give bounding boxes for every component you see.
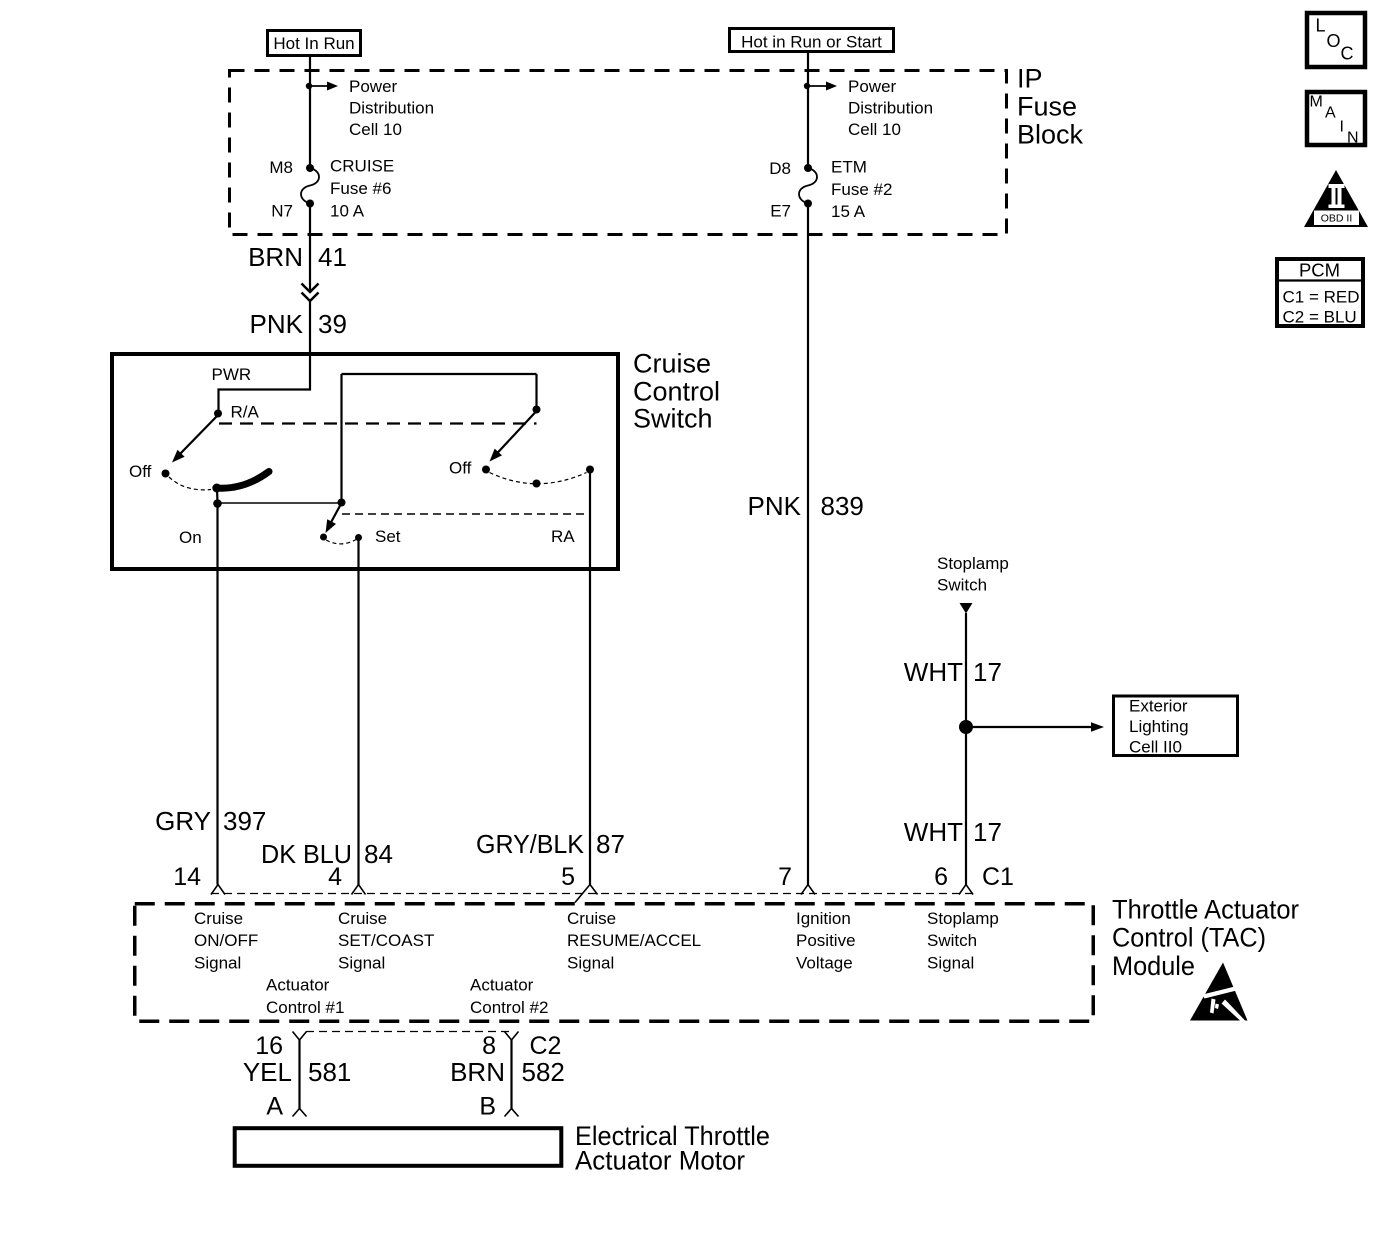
svg-text:Distribution: Distribution <box>349 99 434 118</box>
svg-text:Positive: Positive <box>796 931 856 950</box>
svg-text:Stoplamp: Stoplamp <box>927 909 999 928</box>
svg-text:87: 87 <box>596 829 625 859</box>
svg-text:ETM: ETM <box>831 158 867 177</box>
svg-text:Power: Power <box>349 77 398 96</box>
svg-text:Throttle Actuator: Throttle Actuator <box>1112 895 1299 925</box>
svg-text:D8: D8 <box>769 159 791 178</box>
svg-text:On: On <box>179 528 202 547</box>
svg-text:PCM: PCM <box>1299 260 1340 281</box>
svg-text:Voltage: Voltage <box>796 954 853 973</box>
svg-text:Signal: Signal <box>567 954 614 973</box>
svg-text:Hot in Run or Start: Hot in Run or Start <box>741 33 882 52</box>
svg-text:17: 17 <box>973 817 1002 847</box>
svg-text:CRUISE: CRUISE <box>330 157 394 176</box>
svg-text:WHT: WHT <box>904 657 963 687</box>
svg-text:Lighting: Lighting <box>1129 717 1189 736</box>
svg-text:Off: Off <box>129 462 152 481</box>
svg-text:PNK: PNK <box>250 309 304 339</box>
svg-text:17: 17 <box>973 657 1002 687</box>
svg-text:B: B <box>479 1093 496 1121</box>
svg-text:Cell 10: Cell 10 <box>848 120 901 139</box>
svg-text:SET/COAST: SET/COAST <box>338 931 434 950</box>
svg-text:BRN: BRN <box>248 242 303 272</box>
svg-text:Distribution: Distribution <box>848 99 933 118</box>
svg-text:I: I <box>1340 119 1344 136</box>
svg-text:PWR: PWR <box>212 365 252 384</box>
svg-text:7: 7 <box>778 863 792 891</box>
svg-text:GRY/BLK: GRY/BLK <box>476 829 585 859</box>
svg-text:397: 397 <box>223 806 266 836</box>
svg-text:Control: Control <box>633 377 720 407</box>
svg-text:RA: RA <box>551 527 575 546</box>
svg-text:14: 14 <box>173 863 201 891</box>
svg-text:YEL: YEL <box>243 1057 292 1087</box>
svg-text:Cell II0: Cell II0 <box>1129 738 1182 757</box>
svg-text:Signal: Signal <box>927 954 974 973</box>
svg-text:Power: Power <box>848 77 897 96</box>
svg-text:Actuator: Actuator <box>470 976 534 995</box>
svg-text:ON/OFF: ON/OFF <box>194 931 258 950</box>
svg-text:RESUME/ACCEL: RESUME/ACCEL <box>567 931 701 950</box>
svg-text:Actuator Motor: Actuator Motor <box>575 1146 745 1176</box>
svg-text:A: A <box>1325 105 1336 122</box>
svg-text:Switch: Switch <box>633 404 713 434</box>
svg-text:IP: IP <box>1017 64 1043 94</box>
svg-text:Module: Module <box>1112 951 1195 981</box>
svg-text:Actuator: Actuator <box>266 976 330 995</box>
svg-text:Fuse #2: Fuse #2 <box>831 180 892 199</box>
svg-text:Control (TAC): Control (TAC) <box>1112 923 1266 953</box>
svg-text:L: L <box>1316 16 1326 36</box>
svg-text:6: 6 <box>934 863 948 891</box>
svg-text:WHT: WHT <box>904 817 963 847</box>
svg-text:Signal: Signal <box>338 954 385 973</box>
svg-text:839: 839 <box>821 491 864 521</box>
svg-text:OBD II: OBD II <box>1321 213 1353 225</box>
svg-text:Exterior: Exterior <box>1129 697 1188 716</box>
svg-text:5: 5 <box>561 863 575 891</box>
svg-text:Switch: Switch <box>937 576 987 595</box>
svg-text:R/A: R/A <box>231 403 260 422</box>
svg-text:Ignition: Ignition <box>796 909 851 928</box>
svg-text:Block: Block <box>1017 120 1084 150</box>
svg-text:15 A: 15 A <box>831 202 866 221</box>
svg-text:582: 582 <box>522 1057 565 1087</box>
svg-text:4: 4 <box>328 863 342 891</box>
svg-text:N7: N7 <box>271 202 293 221</box>
svg-text:Off: Off <box>449 459 472 478</box>
svg-text:Hot In Run: Hot In Run <box>273 34 354 53</box>
svg-text:Cruise: Cruise <box>633 349 711 379</box>
svg-text:GRY: GRY <box>155 806 211 836</box>
svg-text:41: 41 <box>318 242 347 272</box>
svg-text:C2: C2 <box>530 1032 562 1060</box>
svg-text:C1 = RED: C1 = RED <box>1283 288 1360 307</box>
svg-text:Cruise: Cruise <box>338 909 387 928</box>
svg-text:Signal: Signal <box>194 954 241 973</box>
svg-text:E7: E7 <box>770 202 791 221</box>
svg-text:C2 = BLU: C2 = BLU <box>1283 308 1357 327</box>
svg-text:N: N <box>1347 130 1359 147</box>
svg-text:581: 581 <box>308 1057 351 1087</box>
svg-text:Switch: Switch <box>927 931 977 950</box>
svg-text:A: A <box>266 1093 283 1121</box>
svg-text:Fuse: Fuse <box>1017 92 1077 122</box>
svg-text:PNK: PNK <box>748 491 802 521</box>
svg-text:10 A: 10 A <box>330 202 365 221</box>
svg-text:Set: Set <box>375 527 401 546</box>
svg-text:BRN: BRN <box>450 1057 505 1087</box>
svg-text:Cruise: Cruise <box>194 909 243 928</box>
svg-text:O: O <box>1327 31 1341 51</box>
svg-text:8: 8 <box>482 1032 496 1060</box>
svg-text:39: 39 <box>318 309 347 339</box>
svg-text:84: 84 <box>364 839 393 869</box>
svg-text:C: C <box>1341 44 1354 64</box>
svg-text:C1: C1 <box>982 863 1014 891</box>
svg-text:Cell 10: Cell 10 <box>349 120 402 139</box>
svg-text:16: 16 <box>255 1032 283 1060</box>
svg-text:Control #2: Control #2 <box>470 998 548 1017</box>
svg-text:Stoplamp: Stoplamp <box>937 554 1009 573</box>
svg-text:Fuse #6: Fuse #6 <box>330 179 391 198</box>
svg-text:Control #1: Control #1 <box>266 998 344 1017</box>
svg-text:M8: M8 <box>269 158 293 177</box>
svg-text:Cruise: Cruise <box>567 909 616 928</box>
svg-text:M: M <box>1310 94 1323 111</box>
